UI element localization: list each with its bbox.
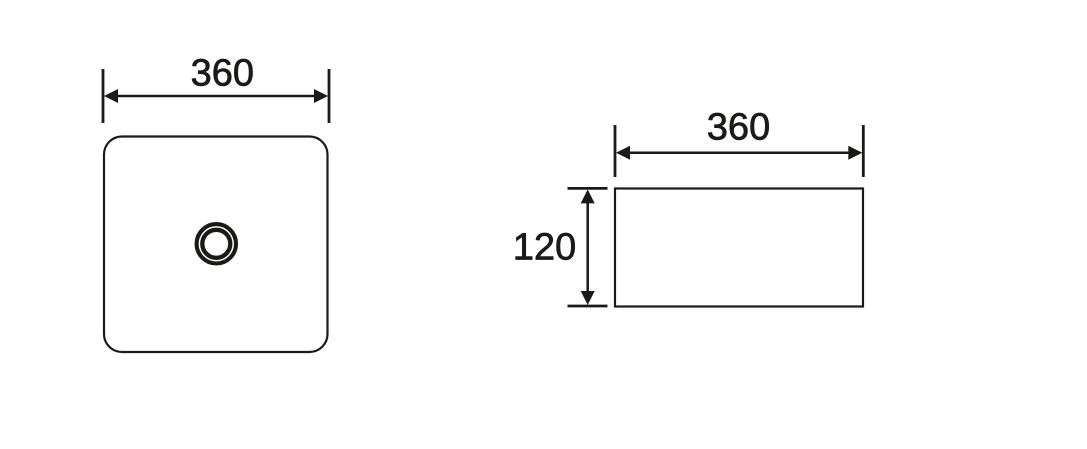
side-view width dimension label 360 bbox=[708, 113, 768, 140]
drain inner circle bbox=[202, 230, 230, 258]
side-view width right arrowhead bbox=[848, 146, 862, 160]
side-view width right extension tick bbox=[862, 125, 865, 177]
side-view height top extension tick bbox=[568, 187, 608, 190]
side-view width left extension tick bbox=[614, 125, 617, 177]
side-view height dimension label 120 bbox=[516, 233, 575, 260]
side-view height bottom extension tick bbox=[568, 305, 608, 308]
basin top view outline bbox=[104, 137, 328, 353]
side-view width left arrowhead bbox=[616, 146, 630, 160]
top-view dimension line bbox=[114, 95, 318, 98]
top-view width dimension label 360 bbox=[192, 59, 252, 86]
top-view dimension left arrowhead bbox=[104, 89, 118, 103]
side-view width dimension line bbox=[626, 151, 852, 154]
top-view left extension tick bbox=[102, 69, 105, 123]
top-view dimension right arrowhead bbox=[314, 89, 328, 103]
side view outline bbox=[615, 189, 863, 307]
side-view height top arrowhead bbox=[581, 189, 595, 203]
top-view right extension tick bbox=[328, 69, 331, 123]
side-view height dimension line bbox=[586, 199, 589, 295]
side-view height bottom arrowhead bbox=[581, 291, 595, 305]
drain outer circle bbox=[197, 224, 236, 263]
